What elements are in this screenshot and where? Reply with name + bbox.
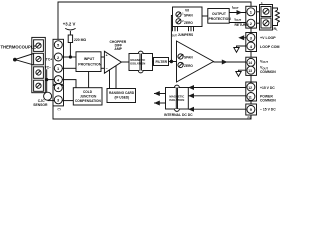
wire CJC sensor to pin 6 (48, 100, 55, 102)
wire -15V to dc-dc (188, 108, 246, 110)
jumper pins group 1 (172, 27, 174, 32)
op-amp A2 output amplifier (177, 41, 214, 82)
potentiometer R5 zero (V/I) (176, 19, 181, 24)
svg-text:ZERO: ZERO (184, 21, 193, 25)
svg-text:IOUT JUMPERS: IOUT JUMPERS (171, 33, 193, 38)
svg-text:14: 14 (248, 61, 252, 65)
wire TC- to input protection (62, 67, 76, 69)
wire load top (273, 8, 278, 10)
pin 14 V out (247, 58, 255, 66)
wire pin1 to load block (257, 11, 260, 13)
potentiometer R3 zero (amplifier) (178, 62, 183, 67)
screw terminal S2 (34, 53, 44, 65)
jumper pins group 2 (188, 27, 190, 32)
wire isolation to filter (153, 61, 154, 63)
potentiometer R4 span (V/I) (176, 12, 181, 17)
sensor CJC (temperature sensor) (44, 92, 52, 100)
wire dc-dc isolated supply 1 (154, 93, 166, 95)
wire chopper amp to ranging card 2 (115, 66, 117, 89)
svg-text:PROTECTION: PROTECTION (209, 17, 232, 21)
wire amplifier output to V out (214, 61, 246, 63)
pin 4 loop common (247, 42, 255, 50)
cold junction compensation U2 (73, 88, 102, 105)
wire thermocouple lead - (15, 60, 34, 65)
pin strip left B (CJC) (53, 85, 64, 106)
wire input protection to chopper + (101, 56, 104, 58)
wire module right edge segment 3 (250, 75, 252, 82)
svg-text:JUNCTION: JUNCTION (80, 95, 97, 99)
svg-text:COLD: COLD (83, 90, 93, 94)
transformer T2 internal dc-dc magnetic isolation (166, 88, 177, 110)
diode D1 I out (237, 10, 243, 15)
wire load bottom (273, 22, 278, 25)
svg-text:PS: PS (248, 116, 252, 120)
screw terminal S3 (34, 67, 44, 79)
arrow V out direction (222, 60, 228, 65)
node +3.2V supply arrow (65, 28, 75, 30)
wire chopper amp to ranging card 1 (109, 70, 111, 89)
ground V out common (236, 72, 241, 77)
pin 2 (54, 53, 62, 61)
output protection U5 (208, 9, 229, 24)
resistor R1 220 Mohm (68, 35, 72, 43)
screw terminal S5 (261, 7, 271, 17)
svg-text:TC−: TC− (45, 66, 51, 70)
potentiometer R2 span (amplifier) (178, 54, 183, 59)
input protection U1 (76, 52, 101, 72)
svg-text:SENSOR: SENSOR (33, 103, 48, 107)
terminal block TB1 outer (32, 37, 46, 92)
svg-text:− 15 V DC: − 15 V DC (260, 108, 276, 112)
screw terminal S4 (34, 80, 44, 91)
node junction filter output (170, 60, 173, 63)
pin 6 (54, 96, 62, 104)
svg-text:SPAN: SPAN (184, 56, 193, 60)
wire CJC sensor to cold junction compensation (62, 100, 73, 102)
pin 2 I out return (247, 19, 255, 27)
wire input protection to chopper - (101, 67, 104, 69)
wire TC- tap down to CJC sensor (46, 69, 48, 92)
svg-text:OUTPUT: OUTPUT (212, 12, 227, 16)
wire pin 4 to sensor junction (47, 79, 55, 81)
wire module right edge segment 4 (250, 101, 252, 104)
wire +15V to dc-dc (188, 87, 246, 89)
screw terminal S1 (34, 40, 44, 52)
svg-text:+15 V DC: +15 V DC (260, 86, 275, 90)
svg-text:IOUT: IOUT (235, 18, 242, 23)
svg-text:220 MΩ: 220 MΩ (74, 38, 86, 42)
transformer T1 signal magnetic isolation (129, 54, 140, 71)
wire pin 4 to cold junction compensation (62, 80, 76, 88)
svg-text:IOUT: IOUT (232, 6, 239, 11)
svg-text:POWER: POWER (260, 94, 273, 98)
svg-text:FILTER: FILTER (156, 60, 168, 64)
wire junction to V/I converter (171, 16, 172, 62)
pin 1 I out (247, 8, 255, 16)
svg-text:SPAN: SPAN (184, 14, 193, 18)
pin 1 (54, 41, 62, 49)
wire module right edge segment 2 (250, 52, 252, 58)
svg-text:RETURN: RETURN (235, 23, 250, 27)
wire V/I to output protection (202, 15, 208, 17)
pin 13 V out common (247, 66, 255, 74)
svg-text:+V LOOP: +V LOOP (260, 36, 276, 40)
svg-text:+3.2 V: +3.2 V (63, 21, 76, 26)
svg-text:VOUT: VOUT (260, 59, 268, 64)
svg-text:(IF USED): (IF USED) (115, 96, 130, 100)
V/I converter U4 (173, 7, 203, 27)
arrow power common into dc-dc (188, 93, 194, 98)
wire resistor to TC+ node (69, 43, 71, 58)
wire +V loop stub (244, 37, 246, 39)
wire input protection to CJC block (88, 72, 90, 88)
wire power common to dc-dc (188, 95, 246, 97)
svg-text:CJC: CJC (38, 99, 45, 103)
svg-text:13: 13 (248, 69, 252, 73)
wire +3.2V to resistor (69, 31, 71, 35)
resistor RL load (275, 10, 279, 22)
node thermocouple junction (13, 58, 17, 62)
wire TC+ to input protection (62, 56, 76, 58)
svg-text:11: 11 (248, 95, 252, 99)
wire V out common stub (239, 70, 246, 71)
ranging card (if used) (107, 89, 136, 103)
svg-text:INTERNAL DC DC: INTERNAL DC DC (164, 113, 193, 117)
svg-text:−: − (106, 67, 108, 71)
pin strip right box 2 (246, 33, 257, 52)
pin 3 (54, 64, 62, 72)
svg-text:COMMON: COMMON (260, 99, 276, 103)
pin 4 (54, 76, 62, 84)
arrow isolated supply 1 (154, 91, 160, 96)
wire dc-dc isolated supply 2 (154, 102, 166, 104)
pin strip left A (53, 39, 64, 84)
wire thermocouple lead + (15, 54, 34, 60)
svg-text:ZERO: ZERO (184, 64, 193, 68)
svg-text:ISOLATION: ISOLATION (169, 98, 184, 102)
svg-text:V/I: V/I (185, 9, 189, 13)
pin strip right box 4 (246, 82, 257, 101)
wire filter to amplifier (169, 61, 177, 63)
svg-text:12: 12 (248, 86, 252, 90)
wire module outline bottom rail (53, 106, 251, 119)
wire module outline top rail (58, 2, 251, 39)
svg-text:COMMON: COMMON (260, 70, 276, 74)
wire I out return (229, 22, 246, 24)
op-amp A1 chopper diff amp (104, 51, 121, 73)
filter U3 (154, 58, 169, 66)
screw terminal S6 (261, 18, 271, 28)
wire chopper amp output to isolation (121, 61, 129, 63)
pin strip right box 3 (246, 57, 257, 75)
svg-text:PROTECTION: PROTECTION (78, 63, 101, 67)
svg-text:+: + (106, 53, 108, 57)
svg-text:ISOLATION: ISOLATION (130, 61, 145, 65)
wire module right edge segment 1 (250, 28, 252, 32)
pin 12 +15V (247, 83, 255, 91)
pin strip right box 1 (246, 6, 257, 28)
svg-text:(*): (*) (58, 107, 61, 111)
svg-text:THERMOCOUPLE: THERMOCOUPLE (1, 45, 37, 50)
svg-text:INPUT: INPUT (84, 57, 95, 61)
pin 3 +V loop (247, 34, 255, 42)
ground loop common (234, 48, 239, 53)
svg-text:RL: RL (274, 27, 279, 32)
pin 5 (54, 84, 62, 92)
pin 9 -15V (247, 105, 255, 113)
wire I out (229, 12, 246, 14)
diode D2 +V loop (238, 35, 244, 40)
terminal block TB2 outer (260, 5, 273, 31)
pin 11 power common (247, 93, 255, 101)
arrow isolated supply 2 (154, 101, 160, 106)
wire pin2 to load block (257, 22, 260, 24)
wire loop common stub (237, 46, 246, 48)
arrow -15V into dc-dc (188, 107, 194, 112)
svg-text:TC+: TC+ (46, 57, 52, 61)
node junction sensor tap (45, 78, 48, 81)
svg-text:RANGING CARD: RANGING CARD (109, 91, 135, 95)
svg-text:LOOP COM: LOOP COM (260, 45, 280, 49)
svg-text:AMP: AMP (114, 47, 122, 51)
arrow +15V into dc-dc (188, 85, 194, 90)
pin strip right box 5 (246, 104, 257, 115)
svg-text:COMPENSATION: COMPENSATION (75, 99, 101, 103)
node junction TC+ pullup (69, 55, 72, 58)
